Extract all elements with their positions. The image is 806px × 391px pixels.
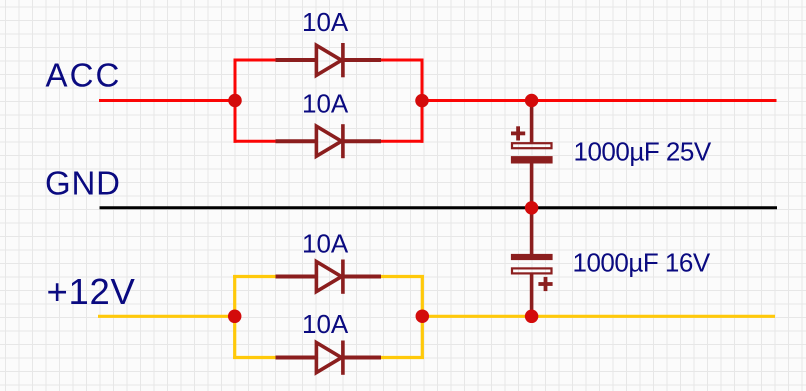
wire capacitor C1 top lead — [530, 101, 534, 145]
diode D1 — [276, 43, 382, 77]
net label ACC — [46, 57, 122, 94]
svg-text:1000µF 16V: 1000µF 16V — [573, 248, 711, 278]
value label 10A (diode D2) — [302, 89, 349, 119]
wire ACC parallel-box right vertical — [421, 59, 424, 143]
wire ACC box top-left segment — [234, 59, 277, 62]
capacitor C2 polarity plus — [538, 277, 552, 291]
svg-text:1000µF 25V: 1000µF 25V — [574, 137, 712, 167]
svg-text:10A: 10A — [302, 89, 349, 119]
svg-text:10A: 10A — [302, 7, 349, 37]
wire ACC parallel-box left vertical — [234, 59, 237, 143]
wire ACC left stub — [99, 99, 235, 102]
junction on ACC at capacitor C1 — [525, 94, 539, 108]
diode D2 — [276, 124, 382, 158]
wire ACC rail right — [422, 99, 777, 102]
wire ACC box bottom-right segment — [381, 140, 424, 143]
svg-text:10A: 10A — [302, 229, 349, 259]
wire capacitor C2 top lead — [530, 208, 534, 256]
diode D3 — [276, 260, 382, 294]
value label 10A (diode D4) — [302, 309, 349, 339]
capacitor C1 polarity plus — [511, 126, 525, 140]
net label GND — [45, 165, 121, 202]
wire ACC box bottom-left segment — [234, 140, 277, 143]
junction on GND at capacitors — [525, 201, 539, 215]
svg-text:ACC: ACC — [46, 57, 122, 94]
svg-text:10A: 10A — [302, 309, 349, 339]
wire +12V box bottom-left segment — [233, 356, 276, 359]
value label capacitor C1 1000uF 25V — [574, 137, 712, 167]
wire +12V left stub — [98, 315, 235, 318]
wire ACC box top-right segment — [381, 59, 424, 62]
junction on +12V at capacitor C2 — [525, 310, 539, 324]
wire +12V rail right — [422, 315, 775, 318]
wire capacitor C1 bottom lead — [530, 164, 534, 208]
capacitor C2 positive plate (outlined) — [512, 268, 552, 273]
junction on ACC at box right — [415, 94, 429, 108]
junction on ACC at box left — [228, 94, 242, 108]
capacitor C2 negative plate (solid) — [511, 254, 553, 260]
wire +12V box top-left segment — [233, 275, 276, 278]
wire +12V box bottom-right segment — [381, 356, 424, 359]
wire +12V box top-right segment — [381, 275, 424, 278]
net label +12V — [47, 271, 136, 312]
capacitor C1 negative plate (solid) — [511, 156, 553, 163]
svg-text:+12V: +12V — [47, 271, 136, 312]
wire +12V parallel-box right vertical — [421, 275, 424, 359]
capacitor C1 positive plate (outlined) — [512, 143, 552, 148]
svg-text:GND: GND — [45, 165, 121, 202]
wire GND rail — [100, 206, 778, 209]
value label capacitor C2 1000uF 16V — [573, 248, 711, 278]
value label 10A (diode D1) — [302, 7, 349, 37]
diode D4 — [276, 341, 382, 375]
wire +12V parallel-box left vertical — [233, 275, 236, 359]
value label 10A (diode D3) — [302, 229, 349, 259]
wire capacitor C2 bottom lead — [530, 273, 534, 316]
junction on +12V at box left — [228, 310, 242, 324]
junction on +12V at box right — [416, 309, 430, 323]
